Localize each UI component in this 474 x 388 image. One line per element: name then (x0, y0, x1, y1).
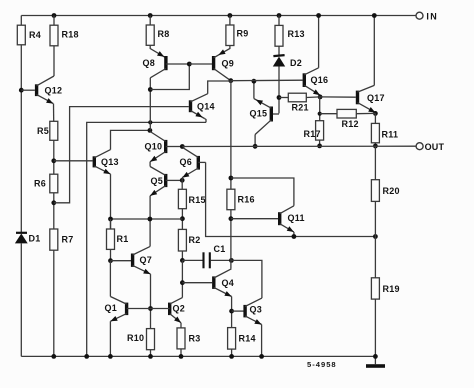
label 5-4958 (307, 360, 337, 369)
resistor R13 (275, 13, 305, 46)
svg-text:R20: R20 (383, 186, 400, 196)
node Q5 base R15 top (180, 178, 185, 183)
resistor R8 (146, 13, 169, 45)
resistor R10 (127, 329, 155, 350)
node R16 top (229, 176, 234, 181)
transistor Q16 (304, 68, 328, 95)
node Q5 emitter tail (148, 217, 153, 222)
transistor Q4 (214, 269, 234, 297)
svg-text:R12: R12 (342, 119, 359, 129)
resistor R3 (177, 328, 201, 349)
transistor Q8 (143, 45, 190, 78)
node Q8 collector (148, 87, 153, 92)
wire Q16 collector to top rail (316, 13, 321, 68)
node Q15 emitter OUT bus (253, 144, 258, 149)
node C1 left (180, 258, 185, 263)
svg-text:D2: D2 (290, 58, 302, 68)
svg-text:Q8: Q8 (143, 58, 156, 68)
terminal OUT (416, 142, 444, 152)
node Q12 base junction (19, 88, 24, 93)
svg-text:OUT: OUT (425, 142, 445, 152)
svg-text:Q5: Q5 (151, 176, 164, 186)
node R6-R7 junction (51, 200, 56, 205)
node Q9 collector (228, 78, 233, 83)
resistor R7 (50, 229, 74, 250)
wire Q6 base down to Q11 bus (206, 162, 376, 236)
node R21 left (277, 95, 282, 100)
wire Q13 collector up (111, 130, 150, 149)
wire Q3 base (232, 310, 244, 312)
transistor Q1 (105, 297, 151, 322)
resistor R21 (279, 93, 320, 112)
node R17 bottom (317, 144, 322, 149)
transistor Q17 (358, 85, 385, 112)
svg-text:Q6: Q6 (180, 157, 193, 167)
svg-text:R2: R2 (189, 235, 201, 245)
svg-text:Q14: Q14 (197, 101, 215, 111)
transistor Q6 (180, 148, 206, 178)
svg-text:R7: R7 (62, 235, 74, 245)
node Q15 collector (252, 79, 257, 84)
wire R1 to Q7 base node (110, 249, 112, 260)
node Q11 emitter bus (292, 234, 297, 239)
wire Q2 emitter to R3 (180, 323, 182, 328)
node bus-Q8 collector junction (148, 120, 152, 124)
svg-text:Q9: Q9 (222, 59, 235, 69)
svg-text:R18: R18 (62, 30, 79, 40)
wire Q14 emitter bus (84, 122, 206, 358)
svg-text:Q2: Q2 (173, 304, 186, 314)
transistor Q10 (145, 132, 182, 162)
node Q3 base (229, 309, 234, 314)
resistor R17 (304, 121, 324, 140)
resistor R18 (50, 13, 79, 46)
node Q10 base / OUT bus start (180, 144, 185, 149)
wire OUT bus (182, 145, 416, 147)
wire Q15 collector up (253, 81, 255, 98)
wire Q6 emitter to R15 node (181, 178, 183, 190)
node Q17 emitter R12 (373, 111, 378, 116)
wire Q8 collector to base tie (150, 62, 191, 90)
wire Q2 collector up to C1 node (181, 260, 183, 297)
svg-text:Q12: Q12 (45, 86, 63, 96)
node Q7 base (108, 258, 113, 263)
transistor Q12 (21, 76, 62, 104)
resistor R9 (226, 13, 249, 45)
wire R15 to R2 (181, 209, 183, 230)
svg-text:R11: R11 (382, 130, 399, 140)
wire Q16 emitter down to R17 (319, 97, 321, 121)
wire Q11 emitter to bus (293, 232, 295, 237)
node R16 bottom (229, 216, 234, 221)
wire R7 to ground rail (51, 250, 56, 359)
wire R2 to C1 node (181, 251, 183, 260)
transistor Q2 (151, 298, 186, 323)
wire Q17 collector to top rail (372, 13, 377, 85)
wire Q9 node down to R16 (230, 81, 232, 190)
node R12 left (318, 112, 322, 116)
svg-text:R15: R15 (189, 195, 206, 205)
wire R18 to Q12 collector (53, 46, 55, 76)
svg-text:Q10: Q10 (145, 141, 163, 151)
wire Q15 emitter down to OUT bus (254, 135, 256, 147)
svg-text:R4: R4 (29, 30, 41, 40)
wire D2 to Q15 base (278, 67, 280, 114)
resistor R1 (107, 219, 129, 249)
transistor Q5 (150, 167, 181, 196)
svg-text:R1: R1 (117, 234, 129, 244)
svg-text:5-4958: 5-4958 (307, 360, 337, 369)
wire R19 to ground rail (373, 299, 378, 359)
wire Q9 node to Q16 base (231, 79, 303, 82)
wire tail node (111, 218, 183, 220)
wire R20 to R19 (374, 201, 376, 277)
wire R4 to D1 (20, 45, 22, 233)
resistor R19 (371, 278, 399, 299)
capacitor C1 (182, 244, 231, 268)
svg-text:Q17: Q17 (367, 93, 385, 103)
node C1 right (229, 258, 234, 263)
transistor Q14 (191, 94, 215, 119)
transistor Q11 (280, 206, 305, 232)
wire Q3 emitter to rail (259, 325, 264, 359)
resistor R6 (34, 174, 58, 193)
wire Q3 collector up (231, 260, 262, 298)
resistor R16 (227, 189, 255, 210)
svg-text:Q4: Q4 (222, 278, 235, 288)
terminal IN (416, 11, 438, 21)
resistor R20 (371, 146, 399, 201)
svg-text:R10: R10 (127, 333, 144, 343)
transistor Q15 (250, 99, 280, 135)
wire Q10 emitter to Q5 collector (149, 162, 151, 167)
wire Q12 emitter to R5 (53, 104, 55, 122)
svg-text:R9: R9 (237, 29, 249, 39)
svg-text:Q3: Q3 (250, 305, 263, 315)
wire Q4 emitter to Q3 base node (231, 297, 233, 328)
svg-text:Q1: Q1 (105, 303, 118, 313)
svg-text:R5: R5 (37, 126, 49, 136)
resistor R4 (17, 16, 41, 45)
svg-text:R6: R6 (34, 179, 46, 189)
resistor R11 (371, 113, 398, 142)
svg-text:Q11: Q11 (288, 213, 305, 223)
resistor R14 (228, 328, 256, 350)
wire Q16 emitter to Q17 base (320, 96, 356, 98)
wire R17 to OUT bus (319, 140, 321, 146)
svg-text:R8: R8 (158, 29, 170, 39)
wire R16 to Q11 base node (230, 210, 232, 269)
wire Q11 base (231, 218, 278, 220)
wire Q8 collector down (149, 78, 151, 131)
svg-text:Q13: Q13 (101, 157, 119, 167)
wire Q13 emitter down to R1 node (110, 174, 112, 229)
node Q1-Q2 base junction (148, 306, 153, 311)
wire top supply rail (21, 15, 416, 17)
svg-text:Q7: Q7 (140, 255, 153, 265)
node R15-R2 junction (180, 216, 185, 221)
node R1 top (108, 217, 113, 222)
wire Q5 emitter down (149, 196, 151, 247)
svg-text:IN: IN (426, 11, 438, 21)
wire R14 to rail (229, 349, 234, 359)
wire R6 to R7 (53, 193, 55, 229)
transistor Q3 (245, 298, 262, 324)
resistor R12 (320, 109, 376, 129)
svg-text:R3: R3 (189, 334, 201, 344)
wire Q1 collector up (109, 261, 111, 297)
wire Q7 emitter down to R10 (150, 274, 152, 329)
svg-text:D1: D1 (29, 234, 41, 244)
node R20-R19 junction (373, 234, 378, 239)
diode D2 (273, 55, 302, 68)
svg-text:C1: C1 (214, 244, 226, 254)
transistor Q13 (94, 150, 118, 175)
resistor R5 (37, 121, 58, 140)
svg-text:R19: R19 (383, 284, 400, 294)
wire R13 to D2 (278, 46, 280, 56)
wire R6 tap to Q14 base (54, 107, 189, 203)
wire R5 to node (53, 140, 55, 174)
node Q16 emitter (318, 95, 323, 100)
resistor R2 (178, 229, 200, 251)
wire Q8-Q9 base link (189, 63, 212, 65)
wire Q14 collector to Q9 node (208, 81, 231, 94)
diode D1 (15, 233, 41, 357)
node OUT (373, 144, 378, 149)
transistor Q9 (214, 46, 234, 81)
svg-text:Q15: Q15 (250, 109, 268, 119)
svg-text:R14: R14 (239, 334, 256, 344)
wire Q1 emitter to rail (108, 321, 113, 359)
wire R16 top to Q11 collector (231, 178, 294, 206)
svg-text:R17: R17 (304, 129, 321, 139)
svg-text:R16: R16 (238, 195, 255, 205)
wire bottom ground rail (21, 355, 375, 357)
wire Q4 base (182, 282, 212, 284)
transistor Q7 (133, 247, 152, 275)
wire Q14 emitter jog (205, 119, 207, 123)
svg-text:R13: R13 (288, 29, 305, 39)
resistor R15 (178, 189, 205, 208)
wire R11 to OUT node (374, 143, 376, 146)
ground (366, 356, 385, 367)
node R5-R6 junction (51, 158, 56, 163)
node Q4 base (180, 280, 185, 285)
node Q13-Q10 collector junction (148, 128, 153, 133)
svg-text:R21: R21 (292, 103, 309, 113)
wire Q7 base (111, 260, 132, 262)
wire R3 to rail (179, 349, 184, 359)
wire node to Q13 base (54, 160, 93, 162)
svg-text:Q16: Q16 (311, 75, 329, 85)
wire R10 to rail (148, 350, 153, 359)
